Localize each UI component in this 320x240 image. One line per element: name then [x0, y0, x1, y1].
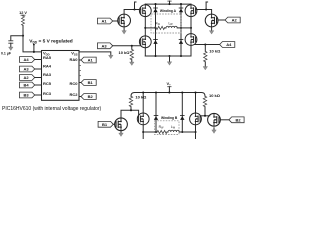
node A2 flag at chip [20, 75, 35, 81]
inductor LW (winding A) [166, 26, 177, 28]
node winding A left [144, 27, 146, 29]
ground (Q5 source) [122, 27, 127, 34]
resistor R3 10k (A4 pulldown) [204, 45, 207, 67]
ground (R3) [203, 67, 208, 71]
svg-text:10 kΩ: 10 kΩ [209, 48, 221, 53]
svg-text:A1: A1 [88, 58, 94, 63]
transistor Q9 driver B1 [115, 118, 128, 131]
node gate pullup stub left [133, 2, 136, 11]
wire right column mid [190, 17, 192, 34]
wire top rail winding A [145, 3, 191, 5]
svg-text:B1: B1 [88, 80, 94, 85]
wire [165, 27, 167, 29]
node A3 pulldown junction [131, 45, 133, 47]
op-amp U1 chip PIC16HV610 body [42, 51, 80, 101]
supply 12V [19, 11, 27, 16]
node B2 flag at chip [81, 94, 96, 100]
wire top rail winding B (rounded ends into pullup resistors) [131, 93, 205, 97]
transistor Q10 driver B2 [208, 113, 221, 126]
wire RC0 to B1 flag [79, 82, 81, 84]
diode D3 upper right [179, 3, 184, 29]
winding B dashed box [155, 121, 180, 135]
transistor Q3 low-side left (winding A) [139, 36, 151, 56]
svg-text:RA4: RA4 [43, 63, 52, 68]
wire A3 to RA4 [35, 68, 42, 70]
svg-text:10 kΩ: 10 kΩ [209, 93, 221, 98]
resistor R5 10k (B2 gate pullup) [203, 96, 206, 116]
wire B3 to RC3 [35, 94, 42, 96]
ground (capacitor) [9, 47, 14, 51]
svg-text:PIC16HV610 (with internal volt: PIC16HV610 (with internal voltage regula… [2, 106, 102, 112]
wire B1 to Q9 gate [113, 123, 116, 125]
wire A2 to RA3 [35, 77, 42, 79]
wire RC2 to B2 flag [79, 96, 81, 98]
ground (Q6 source) [209, 27, 214, 34]
svg-text:RA5: RA5 [43, 55, 52, 60]
svg-text:B3: B3 [23, 93, 29, 98]
svg-text:RC5: RC5 [43, 81, 52, 86]
transistor Q4 low-side right (winding A) [185, 34, 197, 56]
resistor R4 10k (B1 gate pullup) [129, 96, 132, 110]
capacitor C1 [8, 41, 13, 47]
node A4 pulldown junction [204, 43, 206, 45]
inductor LW (winding B) [168, 130, 179, 132]
node A4 flag at chip [20, 57, 35, 63]
wire Q10 drain to Q8 gate [200, 115, 210, 117]
ground (VSS) [109, 55, 114, 59]
wire Q5 drain to Q1 gate [124, 10, 141, 15]
wire VSS to ground [79, 52, 111, 55]
wire winding A row left [145, 27, 154, 29]
svg-text:RC3: RC3 [43, 91, 52, 96]
diode D2 lower left [153, 28, 158, 57]
wire Q9 drain to Q7 gate [121, 110, 139, 118]
node V+ supply (winding B) [167, 81, 172, 94]
wire RA0 to A1 flag [79, 59, 81, 61]
resistor R1 (series supply resistor) [21, 16, 24, 25]
pin stub RC1 [79, 75, 81, 77]
wire winding B row right [179, 131, 195, 133]
node R5 to gate junction [204, 115, 206, 117]
transistor Q7 high-side left (winding B) [137, 91, 149, 139]
svg-text:B2: B2 [88, 94, 94, 99]
svg-text:RC0: RC0 [69, 81, 78, 86]
svg-text:B4: B4 [23, 83, 29, 88]
node A4 flag at bridge [220, 42, 235, 48]
node winding A right [190, 27, 192, 29]
svg-text:0.1 µF: 0.1 µF [1, 52, 12, 56]
svg-text:RA3: RA3 [43, 72, 52, 77]
resistor RW (winding B) [157, 130, 167, 133]
node B1 flag at chip [81, 80, 96, 86]
node B1 flag at bridge [98, 121, 113, 127]
transistor Q1 high-side left (winding A) [139, 4, 151, 17]
node A2 flag at bridge [225, 17, 240, 23]
wire winding B row left [143, 131, 157, 133]
transistor Q5 driver A1 [118, 14, 131, 27]
svg-text:A2: A2 [23, 75, 29, 80]
svg-text:A1: A1 [101, 19, 107, 24]
wire to capacitor [11, 36, 23, 41]
transistor Q2 high-side right (winding A) [185, 4, 197, 17]
svg-text:Winding A: Winding A [160, 9, 177, 13]
svg-text:Winding B: Winding B [161, 116, 178, 120]
node B2 flag at bridge [229, 117, 244, 123]
svg-text:10 kΩ: 10 kΩ [135, 95, 147, 100]
svg-text:RC2: RC2 [69, 92, 78, 97]
svg-text:A2: A2 [232, 18, 238, 23]
wire B4 to RC5 [35, 84, 42, 86]
node B3 flag at chip [20, 92, 35, 98]
diode D6 upper right (winding B) [180, 91, 185, 133]
winding A dashed box [151, 14, 181, 33]
wire A4 to Q4 gate [194, 44, 219, 46]
node R4 to gate junction [130, 109, 132, 111]
wire [167, 131, 168, 133]
wire left column mid [144, 17, 146, 36]
svg-text:A4: A4 [23, 57, 29, 62]
pin stub RA1 [79, 65, 81, 67]
diode D5 upper left (winding B) [154, 91, 159, 133]
wire A4 to RA5 [35, 59, 42, 61]
wire bottom rail winding A [145, 55, 191, 57]
svg-text:12 V: 12 V [19, 11, 27, 15]
wire VDD down to chip [23, 36, 42, 52]
wire A2 to Q6 gate [218, 19, 226, 21]
node gate pullup stub right [205, 2, 208, 11]
wire winding A row right [177, 27, 191, 29]
node VDD junction [22, 35, 24, 37]
node A1 flag at bridge [98, 18, 113, 24]
ground (R2) [130, 62, 135, 66]
diode D4 lower right [179, 28, 184, 57]
transistor Q8 high-side right (winding B) [190, 91, 202, 139]
resistor R2 10k (A3 pulldown) [130, 46, 133, 62]
node A3 flag at bridge [98, 43, 113, 49]
svg-text:10 kΩ: 10 kΩ [119, 50, 131, 55]
svg-text:RA0: RA0 [69, 57, 78, 62]
ground (Q10 source) [212, 128, 217, 134]
pin stub RA2 [79, 70, 81, 72]
diode D1 upper left [153, 3, 158, 29]
svg-text:B1: B1 [102, 122, 108, 127]
svg-text:A4: A4 [226, 42, 232, 47]
wire Q6 drain to Q2 gate [196, 10, 212, 15]
node B4 flag at chip [20, 82, 35, 88]
node A3 flag at chip [20, 66, 35, 72]
wire B2 to Q10 gate [220, 119, 229, 121]
ground (Q9 source) [119, 131, 124, 137]
node A1 flag at chip [81, 57, 96, 63]
resistor RW (winding A) [155, 26, 165, 29]
node V+ stub top [167, 1, 171, 5]
svg-text:A3: A3 [23, 67, 29, 72]
wire supply node [22, 26, 24, 36]
label VREG = 5 V regulated [29, 39, 72, 53]
ground (winding A bridge) [167, 55, 172, 65]
transistor Q6 driver A2 [205, 14, 218, 27]
svg-text:B2: B2 [236, 117, 242, 122]
svg-text:A3: A3 [101, 43, 107, 48]
wire A3 to Q3 gate [113, 45, 141, 47]
wire A1 to Q5 gate [113, 20, 120, 22]
